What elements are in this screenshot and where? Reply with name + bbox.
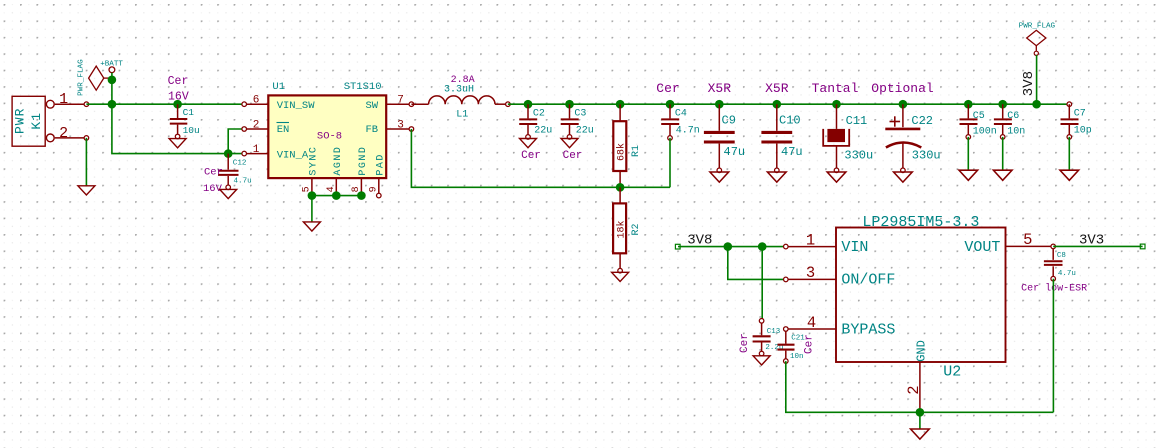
- svg-text:C1: C1: [183, 107, 195, 118]
- junction at C1: [173, 100, 182, 109]
- ground under C10: [767, 172, 786, 182]
- svg-text:K1: K1: [29, 112, 44, 130]
- junction at C3: [565, 100, 574, 109]
- wire C5 to ground: [967, 137, 969, 170]
- svg-text:Cer: Cer: [204, 167, 223, 179]
- capacitor C22 (polarized): [885, 104, 940, 172]
- ground under C9: [710, 172, 729, 182]
- svg-text:100n: 100n: [973, 126, 997, 137]
- svg-text:330u: 330u: [844, 148, 873, 162]
- connector K1: [12, 96, 54, 146]
- wire C8 to ground rail: [1052, 279, 1054, 413]
- svg-text:47u: 47u: [724, 145, 746, 159]
- svg-text:4.7u: 4.7u: [1058, 270, 1076, 278]
- svg-text:VIN_SW: VIN_SW: [277, 100, 316, 112]
- ground under C12: [220, 189, 237, 198]
- capacitor C10: [761, 104, 802, 172]
- ground under R2: [612, 272, 629, 281]
- svg-text:Cer: Cer: [168, 75, 189, 88]
- svg-text:PWR_FLAG: PWR_FLAG: [77, 59, 85, 96]
- svg-text:R1: R1: [631, 145, 642, 157]
- pin 1 VIN: [784, 231, 837, 249]
- svg-text:C2: C2: [533, 109, 545, 120]
- capacitor C13: [739, 319, 783, 356]
- svg-text:4: 4: [807, 314, 816, 332]
- capacitor C9: [704, 104, 745, 172]
- svg-text:EN: EN: [277, 124, 290, 136]
- svg-text:Cer: Cer: [656, 81, 679, 96]
- svg-text:PWR: PWR: [13, 108, 28, 134]
- svg-text:3V8: 3V8: [1021, 71, 1037, 96]
- svg-text:2: 2: [905, 385, 923, 394]
- svg-text:6: 6: [253, 95, 260, 107]
- svg-text:VIN_A: VIN_A: [277, 150, 309, 162]
- svg-text:C7: C7: [1074, 109, 1086, 120]
- junction at C11: [832, 100, 841, 109]
- svg-text:C11: C11: [846, 114, 868, 128]
- capacitor C12: [203, 154, 252, 195]
- svg-text:U1: U1: [272, 81, 285, 93]
- junction pin8: [357, 191, 366, 200]
- IC U2 LP2985IM5-3.3 body: [836, 214, 1006, 381]
- IC U1 ST1S10 body: [268, 81, 386, 178]
- svg-text:2: 2: [59, 125, 68, 142]
- junction ON/OFF branch: [724, 242, 733, 251]
- svg-text:AGND: AGND: [333, 146, 344, 176]
- pin 2 EN: [242, 119, 268, 131]
- ground under C7: [1060, 170, 1079, 180]
- wire C21 to ground rail: [786, 361, 1054, 412]
- pin 9 PAD: [368, 178, 381, 198]
- svg-text:3: 3: [806, 264, 815, 282]
- junction at R1 bottom: [616, 183, 625, 192]
- pin 5 VOUT: [1006, 231, 1056, 249]
- capacitor C1: [168, 75, 200, 139]
- wire VOUT to 3V3: [1053, 245, 1142, 247]
- junction pin4: [332, 191, 341, 200]
- wire 3V8 to VIN: [678, 246, 786, 248]
- net label 3V8: [675, 232, 712, 249]
- svg-text:PWR_FLAG: PWR_FLAG: [1019, 22, 1056, 30]
- svg-text:5: 5: [1023, 231, 1032, 249]
- svg-text:C5: C5: [973, 111, 985, 122]
- ground under U1: [303, 222, 320, 231]
- junction at R1 top: [616, 100, 625, 109]
- svg-text:1: 1: [806, 231, 815, 249]
- svg-text:Cer: Cer: [563, 150, 583, 162]
- svg-text:10n: 10n: [790, 353, 804, 361]
- resistor R1: [613, 104, 642, 187]
- svg-text:18k: 18k: [616, 220, 628, 238]
- svg-text:10p: 10p: [1074, 126, 1092, 137]
- ground under C1: [169, 139, 186, 148]
- junction at C5: [964, 100, 973, 109]
- svg-text:ST1S10: ST1S10: [344, 81, 382, 93]
- capacitor C21: [778, 331, 816, 363]
- pin 2 of K1: [55, 125, 89, 142]
- svg-text:C3: C3: [574, 109, 586, 120]
- wire pin2 to ground: [85, 138, 87, 186]
- ground under C11: [827, 172, 846, 182]
- svg-text:3: 3: [397, 119, 404, 131]
- ground under U2: [911, 429, 930, 439]
- svg-text:47u: 47u: [781, 145, 803, 159]
- svg-text:3V3: 3V3: [1079, 232, 1104, 248]
- svg-text:C22: C22: [911, 114, 933, 128]
- ground under C13: [753, 356, 770, 365]
- pin 8 PGND: [351, 178, 362, 196]
- svg-text:U2: U2: [943, 363, 961, 380]
- svg-text:16V: 16V: [168, 91, 189, 104]
- svg-text:Cer: Cer: [739, 333, 751, 353]
- svg-text:Cer: Cer: [804, 334, 816, 354]
- svg-text:X5R: X5R: [708, 81, 732, 96]
- pin 6 VIN_SW: [242, 95, 268, 107]
- ground under C22: [894, 172, 913, 182]
- svg-text:BYPASS: BYPASS: [841, 321, 895, 338]
- svg-text:1: 1: [59, 91, 68, 108]
- junction at C2: [524, 100, 533, 109]
- svg-text:SYNC: SYNC: [308, 146, 319, 176]
- capacitor C2: [519, 104, 552, 162]
- wire down to C13: [761, 247, 763, 321]
- wire junction down and right to EN/VIN_A: [112, 104, 228, 153]
- svg-text:68k: 68k: [616, 143, 628, 161]
- svg-text:4.7n: 4.7n: [676, 126, 700, 137]
- wire +BATT down to rail: [111, 73, 113, 105]
- junction at C10: [773, 100, 782, 109]
- svg-text:X5R: X5R: [765, 81, 789, 96]
- wire main output rail: [508, 103, 1069, 105]
- pin 4 AGND: [326, 178, 337, 196]
- svg-text:C8: C8: [1057, 252, 1066, 260]
- pin 4 BYPASS: [784, 314, 837, 332]
- svg-text:PAD: PAD: [375, 153, 386, 176]
- pin 1 of K1: [55, 91, 89, 108]
- wire junction to ground: [919, 412, 921, 429]
- wire C6 to ground: [1002, 137, 1004, 170]
- capacitor C11 (tantalum): [823, 104, 873, 172]
- ground under C2: [520, 139, 537, 148]
- junction at +BATT on rail: [108, 100, 117, 109]
- svg-text:FB: FB: [365, 124, 378, 136]
- wire main input rail: [86, 103, 244, 105]
- wire down to ground under U1: [311, 196, 313, 222]
- svg-text:C10: C10: [779, 113, 801, 127]
- power flag PWR_FLAG (top right): [1019, 22, 1056, 55]
- wire EN branch: [228, 129, 244, 154]
- pin 3 FB: [386, 119, 414, 131]
- svg-text:SW: SW: [365, 100, 378, 112]
- pin 1 VIN_A: [242, 144, 268, 156]
- svg-text:C9: C9: [722, 113, 736, 127]
- svg-text:C4: C4: [675, 109, 687, 120]
- junction ground rail: [916, 408, 925, 417]
- svg-text:C12: C12: [233, 159, 247, 167]
- junction at PWR_FLAG: [108, 76, 117, 85]
- pin 7 SW: [386, 95, 414, 107]
- svg-text:7: 7: [397, 95, 404, 107]
- svg-text:L1: L1: [456, 109, 468, 120]
- junction at EN branch: [224, 149, 233, 158]
- svg-text:VIN: VIN: [841, 239, 868, 256]
- ground under K1 pin 2: [78, 186, 95, 195]
- pin 5 SYNC: [302, 178, 313, 196]
- power symbol +BATT: [100, 61, 123, 73]
- wire C4 bottom to FB line: [669, 138, 671, 187]
- junction at C6: [998, 100, 1007, 109]
- capacitor C8: [1021, 249, 1087, 295]
- resistor R2: [613, 187, 642, 273]
- capacitor C5: [960, 104, 997, 139]
- svg-text:330u: 330u: [912, 148, 941, 162]
- svg-text:PGND: PGND: [358, 146, 369, 176]
- ground under C5: [959, 170, 978, 180]
- wire FB feedback: [411, 129, 670, 187]
- wire joining bottom pins: [312, 195, 362, 197]
- svg-text:2: 2: [253, 119, 260, 131]
- svg-text:22u: 22u: [534, 126, 552, 137]
- svg-text:R2: R2: [631, 223, 642, 235]
- junction pin5: [308, 191, 317, 200]
- capacitor C4: [661, 104, 700, 140]
- junction at 3V8 riser: [1032, 100, 1041, 109]
- junction at C9: [715, 100, 724, 109]
- svg-text:Tantal: Tantal: [812, 81, 859, 96]
- svg-text:GND: GND: [914, 340, 928, 362]
- capacitor C6: [994, 104, 1025, 139]
- svg-text:Cer: Cer: [521, 150, 541, 162]
- pin 3 ON/OFF: [784, 264, 837, 282]
- svg-text:9: 9: [368, 186, 379, 192]
- wire PWR_FLAG down to rail: [1036, 55, 1038, 104]
- ground under C3: [561, 139, 578, 148]
- capacitor C3: [561, 104, 594, 162]
- ground under C6: [993, 170, 1012, 180]
- junction at C4: [666, 100, 675, 109]
- svg-text:ON/OFF: ON/OFF: [841, 272, 895, 289]
- svg-text:10n: 10n: [1007, 126, 1025, 137]
- svg-text:1: 1: [253, 144, 260, 156]
- wire C7 to ground: [1068, 137, 1070, 170]
- svg-text:VOUT: VOUT: [964, 239, 1000, 256]
- svg-text:LP2985IM5-3.3: LP2985IM5-3.3: [862, 214, 979, 231]
- junction at C22: [899, 100, 908, 109]
- svg-text:10u: 10u: [183, 125, 200, 136]
- svg-text:SO-8: SO-8: [317, 131, 342, 143]
- net label 3V3: [1079, 232, 1145, 249]
- svg-text:Optional: Optional: [871, 81, 934, 96]
- svg-text:C13: C13: [767, 328, 781, 336]
- inductor L1: [411, 75, 510, 120]
- pin 2 GND: [905, 362, 923, 412]
- wire to ON/OFF: [728, 247, 786, 280]
- svg-text:22u: 22u: [576, 126, 594, 137]
- svg-text:C6: C6: [1007, 111, 1019, 122]
- power flag PWR_FLAG (left): [77, 59, 109, 96]
- junction C13 branch: [758, 242, 767, 251]
- svg-text:3.3uH: 3.3uH: [444, 85, 474, 96]
- wire to VIN_A: [228, 153, 244, 155]
- svg-text:4.7u: 4.7u: [234, 177, 252, 185]
- capacitor C7: [1061, 102, 1092, 139]
